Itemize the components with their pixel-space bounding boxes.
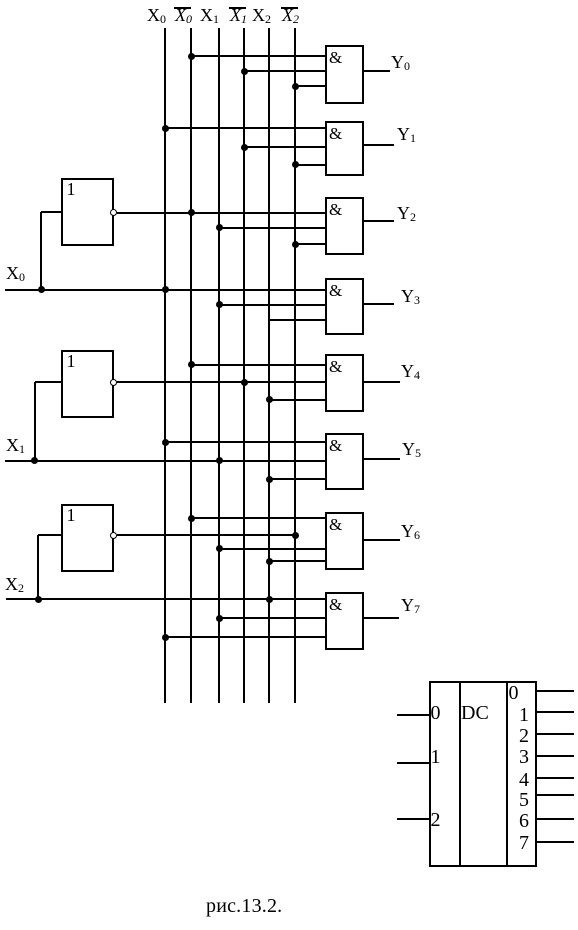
wire gate Y4 input from x=269 <box>269 399 325 401</box>
wire inverter U3 input vertical segment down to X2 feeder <box>37 535 39 599</box>
wire bus X2 vertical <box>268 28 270 703</box>
label Y5 output <box>402 439 415 459</box>
label X2 input <box>5 574 18 594</box>
junction X0 feeder on bus X0 <box>162 286 169 293</box>
AND gate Y2 (&) <box>325 197 364 255</box>
wire gate Y3 input from x=219 <box>219 304 325 306</box>
wire decoder input 0 <box>397 714 430 716</box>
wire bus X1 vertical <box>218 28 220 703</box>
junction gate Y5 input on bus x=269 <box>266 476 273 483</box>
decoder output pin label 7 <box>519 831 529 855</box>
caption figure number <box>206 895 282 918</box>
label X0 input <box>6 263 19 283</box>
junction gate Y6 input on bus x=269 <box>266 558 273 565</box>
wire decoder output 7 <box>537 841 574 843</box>
label Y4 output <box>401 361 414 381</box>
AND gate Y6 (&) <box>325 512 364 570</box>
junction gate Y0 input on bus x=244 <box>241 68 248 75</box>
wire gate Y7 input from x=165 <box>165 636 325 638</box>
wire gate Y5 input from x=269 <box>269 478 325 480</box>
junction X1 feeder with inverter U2 input <box>31 457 38 464</box>
wire X1 input feeder to bus X1 and gate Y5 input 2 <box>5 460 325 462</box>
junction gate Y2 input on bus x=219 <box>216 224 223 231</box>
wire gate Y1 input from x=165 <box>165 127 325 129</box>
label DC <box>461 701 489 725</box>
AND gate Y5 (&) <box>325 433 364 490</box>
wire gate Y4 input from x=191 <box>191 364 325 366</box>
AND gate Y7 (&) <box>325 592 364 651</box>
junction gate Y4 input on bus x=269 <box>266 396 273 403</box>
decoder output pin label 3 <box>519 745 529 769</box>
wire decoder output 6 <box>537 818 574 820</box>
inverter U3 (NOT gate for X2) <box>61 504 114 572</box>
decoder input pin label 0 <box>431 701 441 725</box>
wire gate Y6 input from x=191 <box>191 517 325 519</box>
decoder output pin label 0 <box>509 681 519 705</box>
label /X0 (overlined) at top of bus <box>174 7 191 9</box>
label X0 at top of bus <box>147 5 160 25</box>
decoder DC left internal divider <box>459 681 461 867</box>
wire gate Y7 input from x=219 <box>219 617 325 619</box>
junction X1 feeder on bus X1 <box>216 457 223 464</box>
inverter U2 output bubble <box>110 379 117 386</box>
junction gate Y4 input on bus x=244 <box>241 379 248 386</box>
decoder output pin label 2 <box>519 724 529 748</box>
wire gate Y1 input from x=295 <box>295 164 325 166</box>
label Y2 output <box>397 203 410 223</box>
label X1 at top of bus <box>200 5 213 25</box>
AND gate Y1 (&) <box>325 121 364 177</box>
wire inverter U3 input horizontal segment <box>38 534 61 536</box>
label Y1 output <box>397 124 410 144</box>
decoder DC right internal divider <box>506 681 508 867</box>
wire gate Y6 input from x=219 <box>219 548 325 550</box>
AND gate Y0 (&) <box>325 45 364 104</box>
wire bus /X0 (inverted X0) vertical <box>190 28 192 703</box>
label /X1 (overlined) at top of bus <box>229 7 246 9</box>
wire gate Y3 input from x=269 <box>269 319 325 321</box>
wire gate Y5 output <box>364 458 400 460</box>
junction gate Y0 input on bus x=191 <box>188 53 195 60</box>
wire gate Y0 output <box>364 70 390 72</box>
inverter U1 output bubble <box>110 209 117 216</box>
AND gate Y3 (&) <box>325 278 364 335</box>
wire decoder output 3 <box>537 755 574 757</box>
inverter U2 (NOT gate for X1) <box>61 350 114 419</box>
junction gate Y3 input on bus x=219 <box>216 301 223 308</box>
label Y0 output <box>391 52 404 72</box>
junction gate Y2 input on bus x=191 <box>188 209 195 216</box>
wire bus /X2 (inverted X2) vertical <box>294 28 296 703</box>
wire gate Y0 input from x=244 <box>244 70 325 72</box>
wire gate Y0 input from x=295 <box>295 85 325 87</box>
wire gate Y4 input from x=117 <box>117 381 325 383</box>
wire gate Y0 input from x=191 <box>191 55 325 57</box>
junction X2 feeder on bus X2 <box>266 596 273 603</box>
decoder output pin label 1 <box>519 703 529 727</box>
wire bus X0 vertical <box>164 28 166 703</box>
junction gate Y7 input on bus x=165 <box>162 634 169 641</box>
wire gate Y6 output <box>364 539 400 541</box>
wire gate Y1 output <box>364 144 394 146</box>
wire X2 input feeder to bus X2 and gate Y7 input 1 <box>6 598 325 600</box>
wire gate Y2 output <box>364 220 394 222</box>
junction X0 feeder with inverter U1 input <box>38 286 45 293</box>
label Y7 output <box>401 595 414 615</box>
decoder output pin label 6 <box>519 809 529 833</box>
junction gate Y1 input on bus x=244 <box>241 144 248 151</box>
wire X0 input feeder to bus X0 and gate Y3 input 1 <box>5 289 325 291</box>
junction X2 feeder with inverter U3 input <box>35 596 42 603</box>
decoder DC block outline <box>429 681 537 867</box>
label Y3 output <box>401 286 414 306</box>
junction gate Y6 input on bus x=191 <box>188 515 195 522</box>
wire gate Y5 input from x=165 <box>165 441 325 443</box>
wire gate Y3 output <box>364 303 394 305</box>
label /X2 (overlined) at top of bus <box>281 7 298 9</box>
junction gate Y5 input on bus x=165 <box>162 439 169 446</box>
wire decoder output 5 <box>537 794 574 796</box>
wire gate Y2 input from x=219 <box>219 227 325 229</box>
wire gate Y7 output <box>364 617 399 619</box>
label X2 at top of bus <box>252 5 265 25</box>
junction gate Y1 input on bus x=295 <box>292 161 299 168</box>
junction gate Y6 input on bus x=219 <box>216 545 223 552</box>
wire bus /X1 (inverted X1) vertical <box>243 28 245 703</box>
decoder output pin label 4 <box>519 768 529 792</box>
junction gate Y1 input on bus x=165 <box>162 125 169 132</box>
junction gate Y7 input on bus x=219 <box>216 615 223 622</box>
wire decoder output 2 <box>537 733 574 735</box>
wire gate Y6 input from x=269 <box>269 560 325 562</box>
junction inverter U3 output on bus /X2 <box>292 532 299 539</box>
wire gate Y2 input from x=295 <box>295 243 325 245</box>
decoder output pin label 5 <box>519 788 529 812</box>
label Y6 output <box>401 521 414 541</box>
wire gate Y2 input from x=117 <box>117 212 325 214</box>
wire inverter U1 input horizontal segment <box>41 211 61 213</box>
wire inverter U2 input vertical segment down to X1 feeder <box>34 382 36 461</box>
label X1 input <box>6 435 19 455</box>
wire gate Y4 output <box>364 381 400 383</box>
junction gate Y2 input on bus x=295 <box>292 241 299 248</box>
wire decoder output 4 <box>537 777 574 779</box>
wire gate Y1 input from x=244 <box>244 146 325 148</box>
wire inverter U3 output to bus /X2 <box>117 534 295 536</box>
junction gate Y4 input on bus x=191 <box>188 361 195 368</box>
inverter U1 (NOT gate for X0) <box>61 178 114 246</box>
wire inverter U1 input vertical segment down to X0 feeder <box>40 212 42 290</box>
junction gate Y0 input on bus x=295 <box>292 83 299 90</box>
decoder input pin label 1 <box>431 745 441 769</box>
wire decoder input 1 <box>397 762 430 764</box>
AND gate Y4 (&) <box>325 354 364 412</box>
wire decoder input 2 <box>397 818 430 820</box>
wire decoder output 1 <box>537 711 574 713</box>
inverter U3 output bubble <box>110 532 117 539</box>
wire decoder output 0 <box>537 690 574 692</box>
wire inverter U2 input horizontal segment <box>35 381 61 383</box>
decoder input pin label 2 <box>431 808 441 832</box>
